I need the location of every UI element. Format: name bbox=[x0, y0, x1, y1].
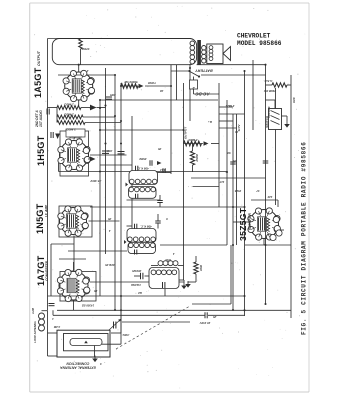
wire h switch bbox=[171, 70, 189, 72]
svg-text:3 MEG: 3 MEG bbox=[66, 128, 76, 132]
svg-text:RECTIFIER: RECTIFIER bbox=[248, 212, 252, 230]
svg-text:LOOP ANTENNA: LOOP ANTENNA bbox=[33, 321, 37, 342]
wire bus v12b bbox=[236, 114, 238, 245]
fuse box 2 bbox=[190, 80, 198, 89]
capacitor avc2 bbox=[102, 151, 109, 153]
label box 250M bbox=[66, 129, 85, 137]
capacitor b233 bbox=[230, 162, 236, 164]
tube V4 1A7GT bbox=[57, 269, 90, 301]
capacitor agc bbox=[118, 152, 125, 154]
wire bus v4 bbox=[120, 83, 122, 296]
wire plate load top bbox=[192, 144, 194, 152]
wire h b100 bbox=[100, 99, 218, 101]
wire bus v5 bbox=[131, 116, 133, 229]
resistor grid top bbox=[79, 39, 83, 49]
capacitor det couple bbox=[150, 160, 152, 166]
svg-text:.05: .05 bbox=[94, 289, 98, 293]
wire v col53 bbox=[52, 310, 54, 315]
svg-text:BATTERY: BATTERY bbox=[195, 69, 213, 73]
arrow tone bbox=[139, 84, 144, 89]
svg-text:35L6: 35L6 bbox=[234, 189, 241, 193]
svg-text:35Z5GT: 35Z5GT bbox=[238, 207, 248, 241]
speaker voice coil bbox=[209, 46, 213, 61]
capacitor loop trimmer bbox=[114, 322, 116, 329]
wire h botmid bbox=[192, 303, 231, 305]
svg-text:45: 45 bbox=[233, 159, 238, 163]
wire h b245 bbox=[160, 244, 227, 246]
wire v5 right bbox=[277, 200, 279, 207]
wire bus v14 bbox=[252, 60, 254, 130]
wire ladder1 bbox=[219, 106, 233, 108]
wire row2 b bbox=[83, 116, 115, 118]
svg-text:SWITCH: SWITCH bbox=[265, 115, 269, 128]
wire acdc lead bbox=[193, 89, 195, 94]
output transformer left winding bbox=[190, 41, 195, 64]
svg-text:1 MEG: 1 MEG bbox=[64, 103, 74, 107]
wire row1 b bbox=[97, 107, 106, 109]
svg-text:OUTPUT: OUTPUT bbox=[37, 50, 41, 66]
wire battery line bbox=[197, 64, 266, 66]
wire h v2out bbox=[90, 154, 127, 156]
capacitor t2 in bbox=[155, 221, 161, 223]
page edge right bbox=[308, 3, 310, 392]
wire h bus315 bbox=[53, 314, 205, 316]
wire bleeder gnd bbox=[188, 281, 196, 283]
svg-text:OSC: OSC bbox=[164, 258, 171, 262]
capacitor osc tank bbox=[163, 282, 165, 288]
capacitor det in bbox=[163, 168, 165, 173]
wire osc box down bbox=[164, 289, 166, 297]
ground osc b bbox=[181, 283, 187, 290]
wire padder r bbox=[145, 275, 150, 277]
scan noise bbox=[34, 6, 306, 389]
svg-text:1 MEG: 1 MEG bbox=[64, 113, 74, 117]
wire left col2 bbox=[50, 244, 52, 296]
tube V3 1N5GT bbox=[58, 206, 89, 236]
capacitor b265 bbox=[263, 161, 269, 163]
svg-text:4: 4 bbox=[100, 362, 103, 366]
wire h v3b bbox=[68, 250, 127, 252]
svg-text:250M: 250M bbox=[195, 154, 199, 163]
resistor 50000 bbox=[121, 84, 138, 89]
wire h if1bot bbox=[127, 199, 161, 201]
wire ladder2 bbox=[219, 120, 233, 122]
IF T2 primary box bbox=[127, 229, 156, 243]
ground loop bbox=[92, 356, 98, 363]
svg-text:AVB-05: AVB-05 bbox=[105, 263, 116, 267]
svg-text:.25: .25 bbox=[213, 315, 218, 319]
shield box V2 bbox=[60, 131, 89, 176]
capacitor border audio2 bbox=[51, 132, 53, 138]
antenna coupling coil bbox=[39, 313, 45, 331]
wire bus v6 bbox=[170, 65, 172, 174]
wire h det bbox=[184, 143, 204, 145]
svg-text:4.2M: 4.2M bbox=[53, 325, 61, 329]
svg-text:.005: .005 bbox=[110, 93, 116, 97]
wire loop bus up bbox=[120, 296, 122, 344]
oscillator winding bbox=[151, 270, 177, 275]
wire t2 in lead bbox=[157, 214, 159, 221]
svg-text:.006: .006 bbox=[107, 149, 113, 153]
svg-text:Y4000: Y4000 bbox=[148, 81, 157, 85]
svg-text:456 K.C.: 456 K.C. bbox=[137, 167, 150, 171]
svg-text:4.2M: 4.2M bbox=[31, 307, 35, 315]
wire bus v7 bbox=[176, 65, 178, 100]
wire bus v10 bbox=[218, 83, 220, 207]
capacitor t1 out bbox=[157, 201, 163, 203]
switch arm bbox=[188, 70, 200, 78]
svg-text:.0001: .0001 bbox=[122, 333, 129, 337]
svg-text:OFF: OFF bbox=[292, 97, 296, 103]
svg-text:20 150V: 20 150V bbox=[199, 321, 212, 325]
wire v5 left bbox=[233, 221, 249, 223]
svg-text:.05 400V: .05 400V bbox=[89, 179, 101, 183]
IF T2 secondary box bbox=[128, 242, 156, 253]
tube V1 1A5GT bbox=[63, 70, 95, 101]
svg-text:CONNECTION: CONNECTION bbox=[66, 362, 89, 366]
svg-text:I.F. AMP: I.F. AMP bbox=[45, 204, 49, 217]
wire h acline bbox=[201, 74, 266, 76]
arrow det couple bbox=[157, 161, 162, 165]
wire loop leads bbox=[48, 332, 58, 334]
wire h b178 bbox=[191, 177, 266, 179]
svg-text:1ST AUDIO: 1ST AUDIO bbox=[39, 110, 43, 127]
wire h if1top bbox=[59, 171, 228, 173]
t1 left mark bbox=[126, 183, 129, 187]
oscillator coil box bbox=[149, 268, 179, 289]
wire v3 v4 link bbox=[73, 251, 75, 270]
wire v5 bottom bbox=[263, 239, 265, 245]
wire v2 top lead bbox=[73, 130, 75, 140]
tube V5 extra pins bbox=[270, 230, 282, 241]
wire h r1 bbox=[121, 85, 138, 87]
speaker frame bbox=[207, 44, 223, 64]
wire v3 bottom lead bbox=[73, 236, 75, 252]
wire t1 out lead bbox=[159, 195, 161, 201]
capacitor border conv bbox=[49, 304, 55, 306]
svg-text:3000: 3000 bbox=[199, 264, 203, 271]
wire ballast bottom bbox=[282, 115, 288, 117]
svg-text:.05: .05 bbox=[235, 130, 239, 134]
wire bus v16 bbox=[275, 88, 277, 205]
IF T1 primary box bbox=[129, 171, 158, 185]
wire b245b bbox=[245, 244, 291, 246]
resistor plate load bbox=[190, 151, 194, 165]
wire t2 in lead2 bbox=[157, 224, 159, 229]
wire row1 left bbox=[48, 107, 58, 109]
wire bus v8 bbox=[183, 83, 185, 280]
wire loop to grid bbox=[111, 332, 121, 334]
wire bus v15 bbox=[265, 64, 267, 304]
wire h 165 bbox=[100, 164, 132, 166]
wire h top2 bbox=[58, 74, 115, 76]
wire h if2 bbox=[127, 225, 133, 227]
svg-text:.05: .05 bbox=[158, 147, 162, 151]
svg-text:1H5GT: 1H5GT bbox=[36, 135, 46, 166]
svg-text:117: 117 bbox=[219, 180, 224, 184]
loop antenna outer bbox=[57, 330, 110, 357]
wire t1 right stub bbox=[158, 172, 172, 174]
wire bus v9 bbox=[189, 64, 191, 121]
output transformer core bbox=[197, 40, 201, 65]
arrow avc bbox=[204, 141, 209, 146]
svg-text:1A5GT: 1A5GT bbox=[33, 67, 43, 98]
svg-text:470M: 470M bbox=[82, 47, 91, 51]
wire h b114 bbox=[219, 113, 245, 115]
wire h v4row bbox=[90, 281, 184, 283]
resistor det load bbox=[184, 141, 202, 146]
svg-text:ON-OFF: ON-OFF bbox=[267, 106, 271, 118]
svg-text:290M 4W: 290M 4W bbox=[264, 89, 277, 93]
svg-text:456 K.C.: 456 K.C. bbox=[140, 225, 153, 229]
wire v3 right lead bbox=[89, 220, 120, 222]
wire line cord r bbox=[287, 84, 291, 86]
wire top border bbox=[48, 38, 192, 40]
loop antenna inner bbox=[70, 339, 102, 346]
svg-text:14300 B2: 14300 B2 bbox=[81, 304, 94, 308]
wire plate load bottom bbox=[192, 165, 194, 172]
wire v2 drop bbox=[58, 163, 60, 172]
wire ballast feed bbox=[266, 99, 276, 101]
wire loop ground lead bbox=[94, 346, 96, 358]
loop arrow mark bbox=[84, 341, 88, 344]
svg-text:2 MEG: 2 MEG bbox=[188, 138, 199, 142]
wire h det2 bbox=[211, 143, 219, 145]
wire right border bbox=[290, 75, 292, 318]
t2 left mark bbox=[124, 240, 127, 244]
wire line cord l bbox=[266, 84, 273, 86]
resistor bleeder bbox=[194, 262, 198, 274]
ground bleeder bbox=[185, 281, 191, 288]
wire bottom bus bbox=[57, 309, 291, 311]
wire osc gnd lead bbox=[179, 279, 184, 281]
wire h loopout bbox=[122, 321, 190, 323]
svg-text:1N5GT: 1N5GT bbox=[35, 203, 45, 234]
wire bus v13 bbox=[244, 71, 246, 316]
capacitor border audio bbox=[47, 109, 49, 115]
output transformer secondary winding bbox=[202, 46, 206, 64]
capacitor padder bbox=[141, 273, 143, 280]
ground ballast bbox=[284, 121, 290, 128]
wire padder l bbox=[134, 275, 141, 277]
tube V5 35Z5GT bbox=[248, 208, 281, 240]
ballast plate bbox=[269, 109, 282, 130]
IF T1 secondary box bbox=[129, 187, 157, 199]
wire top res lead bbox=[80, 49, 82, 65]
resistor 1 meg row2 bbox=[57, 115, 83, 119]
wire v1 bottom lead bbox=[78, 100, 80, 107]
svg-text:CONVERTER: CONVERTER bbox=[45, 260, 49, 281]
dashed gang line bbox=[116, 306, 190, 349]
page edge left bbox=[29, 3, 31, 392]
svg-text:B+: B+ bbox=[208, 120, 212, 124]
wire v4 top lead bbox=[73, 262, 75, 271]
capacitor audio coupling bbox=[106, 97, 112, 99]
wire row3 b bbox=[85, 122, 121, 124]
svg-text:.05: .05 bbox=[108, 217, 112, 221]
wire ant coil leads bbox=[42, 310, 48, 312]
tube V2 1H5GT bbox=[58, 139, 91, 171]
wire bus v2 bbox=[105, 68, 107, 254]
wire loop to bus bbox=[102, 343, 121, 345]
svg-text:CHEVROLET: CHEVROLET bbox=[237, 32, 271, 39]
wire h mid130 bbox=[100, 129, 184, 131]
wire bus v1 bbox=[99, 100, 101, 296]
wire h v3row bbox=[90, 206, 245, 208]
wire h 259 bbox=[59, 258, 86, 260]
wire t1 out lead2 bbox=[159, 203, 161, 207]
resistor 1 meg row1 bbox=[57, 106, 81, 110]
svg-text:FIG. 5 CIRCUIT DIAGRAM PORTABL: FIG. 5 CIRCUIT DIAGRAM PORTABLE RADIO #9… bbox=[301, 141, 308, 335]
page edge bottom bbox=[30, 391, 309, 393]
wire bus v3 bbox=[114, 75, 116, 310]
svg-text:A.S.K.: A.S.K. bbox=[263, 79, 273, 83]
wire ballast top bbox=[274, 100, 276, 109]
wire v5top bbox=[251, 199, 278, 201]
wire loop left edge2 bbox=[47, 333, 49, 356]
wire bus v12 bbox=[232, 114, 234, 310]
wire v1 top lead bbox=[78, 65, 80, 72]
wire bleeder bbox=[195, 256, 197, 262]
wire v botmid bbox=[230, 245, 232, 304]
arrow v2 diode bbox=[90, 157, 96, 162]
wire acdc h bbox=[194, 93, 220, 95]
svg-text:250M: 250M bbox=[139, 157, 148, 161]
svg-text:B2: B2 bbox=[138, 291, 142, 295]
wire loop left edge bbox=[47, 310, 49, 333]
svg-text:MODEL 985866: MODEL 985866 bbox=[237, 40, 282, 47]
shield box V4 bbox=[60, 272, 96, 302]
trimmer arrow bbox=[109, 319, 121, 330]
arrow border cap bbox=[55, 134, 60, 140]
wire bus v11 bbox=[226, 100, 228, 245]
svg-text:47: 47 bbox=[256, 189, 261, 193]
wire osc coil lead l bbox=[151, 265, 158, 267]
wire left border bbox=[47, 39, 49, 311]
wire h 244 bbox=[51, 243, 74, 245]
wire h b186 bbox=[193, 186, 220, 188]
capacitor T2 primary bbox=[135, 224, 137, 229]
arrow volume control bbox=[90, 105, 97, 111]
wire v2 arrow lead bbox=[88, 158, 90, 160]
svg-text:.02: .02 bbox=[160, 89, 164, 93]
field coil loop box bbox=[52, 39, 196, 65]
page edge top bbox=[30, 2, 309, 4]
shield box V3 bbox=[59, 206, 92, 237]
svg-text:.000425: .000425 bbox=[132, 269, 142, 273]
wire ladder3 bbox=[219, 127, 237, 129]
capacitor T2 secondary bbox=[135, 250, 137, 255]
svg-text:50000 1W: 50000 1W bbox=[124, 80, 137, 84]
svg-text:120: 120 bbox=[267, 195, 272, 199]
resistor line cord bbox=[272, 83, 287, 87]
wire v4 bottom lead bbox=[73, 301, 75, 311]
wire v5 pin stub bbox=[278, 229, 284, 231]
wire osc coil lead r bbox=[178, 265, 184, 267]
loop antenna mid bbox=[64, 334, 109, 351]
svg-text:3 BAND: 3 BAND bbox=[131, 283, 141, 287]
wire left col bbox=[56, 108, 58, 123]
oscillator coupling coil bbox=[158, 261, 178, 266]
wire h oscrow bbox=[48, 295, 245, 297]
svg-text:OUTPUT: OUTPUT bbox=[184, 126, 188, 140]
wire h bus315b bbox=[208, 314, 245, 316]
resistor 3 meg row3 bbox=[57, 121, 85, 125]
svg-text:90: 90 bbox=[227, 151, 231, 155]
speaker cone bbox=[223, 47, 231, 61]
wire switch drop bbox=[193, 77, 195, 81]
capacitor T1 secondary bbox=[136, 194, 138, 199]
svg-text:2 MEG: 2 MEG bbox=[225, 104, 236, 108]
wire h r1b bbox=[145, 85, 171, 87]
capacitor b2 bus bbox=[205, 312, 207, 318]
capacitor T1 primary bbox=[136, 166, 138, 171]
wire row1 a bbox=[81, 107, 90, 109]
